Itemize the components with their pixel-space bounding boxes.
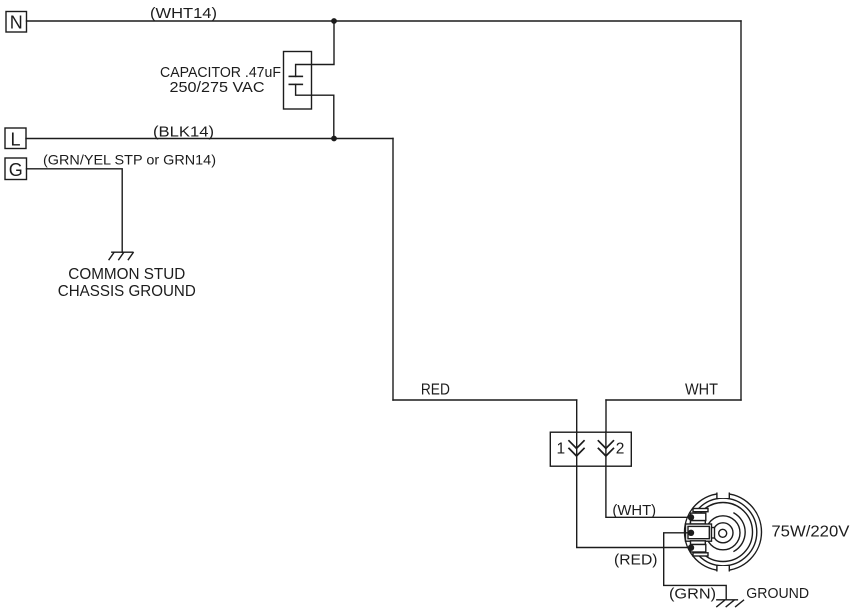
motor flange arc right bbox=[734, 513, 745, 551]
motor terminal dot WHT bbox=[688, 514, 694, 520]
svg-text:(GRN/YEL STP or GRN14): (GRN/YEL STP or GRN14) bbox=[43, 152, 216, 168]
svg-text:GROUND: GROUND bbox=[746, 585, 809, 602]
capacitor C lead top bbox=[296, 21, 334, 76]
motor shaft circle bbox=[719, 529, 727, 537]
motor terminal housing top tab bbox=[693, 509, 708, 512]
svg-text:1: 1 bbox=[557, 440, 566, 457]
wire RED drop to connector pin 1 bbox=[576, 400, 578, 432]
svg-text:G: G bbox=[9, 160, 23, 180]
wire GRN from middle terminal to ground bbox=[664, 533, 727, 600]
svg-text:(WHT14): (WHT14) bbox=[150, 5, 217, 22]
motor bottom notch bbox=[717, 565, 729, 572]
motor top notch bbox=[717, 492, 729, 499]
connector pin 2 chevron contact bbox=[598, 441, 613, 456]
motor M1 bbox=[685, 492, 762, 573]
capacitor plate bottom bbox=[289, 83, 302, 85]
node L terminal box bbox=[5, 128, 26, 149]
wire RED vertical drop bbox=[392, 139, 394, 401]
svg-text:(BLK14): (BLK14) bbox=[153, 124, 214, 141]
wire G ground lead bbox=[27, 169, 123, 252]
node G terminal box bbox=[5, 158, 27, 180]
junction dot on N wire bbox=[331, 18, 337, 24]
motor terminal housing middle outer bbox=[686, 524, 712, 541]
svg-text:COMMON STUD: COMMON STUD bbox=[68, 266, 185, 283]
capacitor box bbox=[284, 52, 312, 110]
svg-text:CHASSIS GROUND: CHASSIS GROUND bbox=[58, 283, 196, 300]
motor terminal housing bottom terminal bbox=[691, 545, 706, 553]
motor circle r10 bbox=[713, 523, 733, 543]
wire WHT horizontal bbox=[606, 399, 741, 401]
chassis ground symbol left bbox=[109, 252, 133, 259]
motor terminal housing upper step bbox=[691, 521, 706, 524]
motor terminal housing bottom tab bbox=[693, 553, 708, 556]
motor inner bezel circle bbox=[689, 498, 757, 566]
svg-text:(RED): (RED) bbox=[614, 552, 658, 569]
svg-text:(WHT): (WHT) bbox=[612, 502, 656, 519]
motor terminal housing top terminal bbox=[691, 513, 706, 521]
motor terminal housing middle nub bbox=[712, 528, 715, 539]
svg-text:250/275 VAC: 250/275 VAC bbox=[170, 79, 265, 96]
wire L (BLK14) horizontal bbox=[26, 138, 393, 140]
connector pin 1 chevron contact bbox=[569, 441, 584, 456]
wire WHT drop to connector pin 2 bbox=[605, 400, 607, 432]
motor dome circle bbox=[694, 503, 753, 562]
svg-text:(GRN): (GRN) bbox=[669, 585, 716, 602]
capacitor plate top bbox=[289, 75, 302, 77]
wire right side vertical bbox=[740, 21, 742, 400]
connector J1 box bbox=[550, 432, 631, 466]
motor terminal housing middle inner bbox=[688, 526, 709, 538]
junction dot on L wire bbox=[331, 136, 337, 142]
svg-text:2: 2 bbox=[616, 440, 625, 457]
capacitor lead bottom bbox=[296, 84, 334, 138]
svg-text:L: L bbox=[10, 130, 20, 150]
svg-text:RED: RED bbox=[421, 382, 450, 399]
motor terminal dot GRN bbox=[688, 530, 694, 536]
motor terminal dot RED bbox=[688, 545, 694, 551]
motor terminal housing lower step bbox=[691, 541, 706, 545]
wire RED from pin1 through connector to motor bbox=[577, 432, 690, 548]
svg-text:75W/220V: 75W/220V bbox=[771, 523, 849, 540]
chassis ground symbol right bbox=[717, 600, 744, 607]
motor outer bezel circle bbox=[685, 494, 762, 571]
wire RED horizontal bbox=[393, 399, 577, 401]
wire WHT from pin2 through connector to motor bbox=[606, 432, 690, 517]
svg-text:N: N bbox=[10, 13, 23, 33]
svg-text:WHT: WHT bbox=[685, 382, 718, 399]
motor circle r17 bbox=[706, 516, 740, 550]
node N terminal box bbox=[6, 12, 27, 33]
wire N (WHT14) horizontal bbox=[27, 20, 742, 22]
